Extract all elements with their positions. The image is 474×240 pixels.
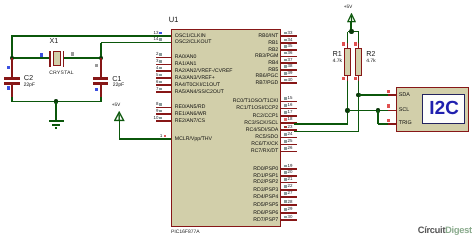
pin 9 number — [156, 109, 158, 113]
pin 9 stub — [156, 113, 172, 115]
wire MCLR riser — [119, 121, 121, 139]
crystal X1 label — [50, 37, 59, 44]
capacitor C1 label — [112, 75, 121, 82]
capacitor C2 — [11, 58, 13, 77]
chip U1 value label PIC16F877A — [171, 230, 200, 235]
pin 24 number — [288, 132, 293, 136]
pin 23 stub — [281, 129, 297, 131]
pin 19 number — [288, 164, 293, 168]
pin 37 stub — [281, 62, 297, 64]
marker R2 bottom terminal — [354, 77, 358, 81]
wire SDA riser — [358, 95, 360, 132]
marker R1 top terminal — [342, 42, 346, 46]
chip U1 body (PIC16F877A) — [171, 29, 281, 227]
wire SCL to module — [348, 110, 391, 112]
pin 29 stub — [281, 212, 297, 214]
wire MCLR — [119, 138, 171, 140]
pin 15 number — [288, 96, 293, 100]
pin 17 stub — [281, 115, 297, 117]
wire TRIG drop — [377, 110, 379, 124]
pin 20 name label RD1/PSP1 — [253, 174, 278, 179]
pin 18 number — [288, 117, 293, 121]
pin 25 number — [288, 139, 293, 143]
pin 30 stub — [281, 219, 297, 221]
pin 4 name label RA2/AN2/VREF-/CVREF — [175, 69, 233, 74]
pin 15 stub — [281, 101, 297, 103]
marker blue C1 bottom — [95, 88, 98, 91]
pin 22 number — [288, 184, 293, 188]
module I2C title — [424, 95, 465, 124]
pin 38 name label RB5 — [268, 68, 278, 73]
power +5V arrow (pull-ups) — [347, 13, 356, 23]
pin 25 name label RC6/TX/CK — [251, 142, 278, 147]
pin 38 number — [288, 64, 293, 68]
wire OSC1 top — [11, 35, 171, 37]
pin 2 stub — [156, 57, 172, 59]
pin 6 name label RA4/T0CKI/C1OUT — [175, 83, 220, 88]
pin 16 number — [288, 103, 293, 107]
pin 24 name label RC5/SDO — [255, 135, 278, 140]
pin 21 stub — [281, 182, 297, 184]
pin 33 number — [288, 31, 293, 35]
wire SDA from pin 23 — [294, 131, 359, 133]
pin 23 name label RC4/SDI/SDA — [246, 128, 279, 133]
resistor R1 label — [333, 50, 342, 57]
pin 8 stub — [156, 107, 172, 109]
pin 35 number — [288, 44, 293, 48]
pin 34 number — [288, 38, 293, 42]
node SCL junction — [345, 108, 350, 113]
crystal value label CRYSTAL — [49, 71, 74, 76]
pin 14 name label OSC2/CLKOUT — [175, 40, 212, 45]
pin 18 stub — [281, 122, 297, 124]
pin 4 number — [156, 66, 158, 70]
pin 28 name label RD5/PSP5 — [253, 203, 278, 208]
node ground junction — [54, 99, 59, 104]
wire +5V stem — [350, 22, 352, 31]
marker SDA terminal — [387, 90, 390, 93]
pin 16 name label RC1/T1OSI/CCP2 — [236, 106, 278, 111]
pin 26 name label RC7/RX/DT — [251, 149, 278, 154]
pin 24 stub — [281, 137, 297, 139]
pin 33 stub — [281, 35, 297, 37]
pin 25 stub — [281, 144, 297, 146]
pin 35 stub — [281, 49, 297, 51]
pin 34 stub — [281, 42, 297, 44]
pin 21 number — [288, 177, 293, 181]
pin 18 name label RC3/SCK/SCL — [244, 121, 278, 126]
pin 40 stub — [281, 82, 297, 84]
pin 5 stub — [156, 77, 172, 79]
pin 14 number — [154, 37, 159, 41]
marker SCL terminal — [387, 104, 390, 107]
pin 37 number — [288, 58, 293, 62]
capacitor C1 — [100, 58, 102, 77]
pin 39 name label RB6/PGC — [256, 74, 279, 79]
pin 35 name label RB2 — [268, 48, 278, 53]
wire C1 to OSC2 riser — [100, 43, 102, 58]
pin 27 name label RD4/PSP4 — [253, 195, 278, 200]
pin 3 stub — [156, 64, 172, 66]
pin 37 name label RB4 — [268, 61, 278, 66]
pin 8 name label RE0/AN5/RD — [175, 105, 206, 110]
wire crystal right — [64, 57, 101, 59]
pin 1 number — [160, 134, 162, 138]
marker gray C1 top — [95, 64, 98, 67]
pin 36 name label RB3/PGM — [255, 54, 278, 59]
resistor R1 value 4.7k — [333, 59, 342, 64]
pin 17 number — [288, 110, 293, 114]
wire SDA to module — [359, 94, 391, 96]
pin 13 number — [154, 31, 159, 35]
pin 26 stub — [281, 151, 297, 153]
resistor R2 — [358, 32, 360, 45]
pin 29 number — [288, 207, 293, 211]
pin 27 stub — [281, 196, 297, 198]
resistor R2 value 4.7k — [366, 59, 375, 64]
pin 19 name label RD0/PSP0 — [253, 167, 278, 172]
node SDA junction — [356, 93, 361, 98]
node crystal-right junction — [99, 56, 104, 61]
pin 8 number — [156, 102, 158, 106]
pin 28 stub — [281, 204, 297, 206]
pin 2 number — [156, 52, 158, 56]
pin 29 name label RD6/PSP6 — [253, 211, 278, 216]
pin 36 stub — [281, 56, 297, 58]
pin 7 name label RA5/AN4/SS/C2OUT — [175, 90, 224, 95]
pin 21 name label RD2/PSP2 — [253, 180, 278, 185]
module I2C inner screen — [422, 94, 465, 123]
pin 39 stub — [281, 76, 297, 78]
pin 19 stub — [281, 168, 297, 170]
pin 26 number — [288, 146, 293, 150]
pin 23 number — [288, 125, 293, 129]
crystal X1 — [49, 51, 50, 68]
pin 20 stub — [281, 175, 297, 177]
pin 7 number — [156, 87, 158, 91]
pin 15 name label RC0/T1OSO/T1CKI — [233, 99, 279, 104]
pin 13 stub — [156, 35, 172, 37]
CircuitDigest logo — [418, 225, 472, 235]
pin 10 number — [154, 116, 159, 120]
pin 13 name label OSC1/CLKIN — [175, 34, 206, 39]
pin 20 number — [288, 170, 293, 174]
pin 1 name label MCLR/Vpp/THV — [175, 137, 212, 142]
power +5V label (pull-ups) — [344, 5, 352, 10]
capacitor C1 value 22pF — [113, 83, 124, 88]
pin 28 number — [288, 200, 293, 204]
wire SCL from pin 18 — [294, 123, 348, 125]
pin 5 name label RA3/AN3/VREF+ — [175, 76, 215, 81]
pin 6 number — [156, 80, 158, 84]
node crystal-left junction — [10, 56, 15, 61]
pin 38 stub — [281, 69, 297, 71]
pin 16 stub — [281, 108, 297, 110]
module pin SCL — [388, 110, 396, 112]
node TRIG junction — [376, 108, 381, 113]
pin 5 number — [156, 73, 158, 77]
pin 27 number — [288, 191, 293, 195]
wire TRIG to module — [378, 123, 391, 125]
power +5V arrow (MCLR) — [114, 111, 125, 122]
ground symbol — [55, 102, 57, 121]
pin 2 name label RA0/AN0 — [175, 55, 197, 60]
marker blue C2 bottom — [7, 86, 10, 89]
pin 40 name label RB7/PGD — [256, 81, 279, 86]
wire bottom rail — [11, 101, 101, 103]
resistor R1 — [347, 32, 349, 45]
pin 22 name label RD3/PSP3 — [253, 188, 278, 193]
wire crystal left — [12, 57, 50, 59]
pin 33 name label RB0/INT — [258, 34, 278, 39]
marker R2 top terminal — [354, 42, 358, 46]
resistor R2 label — [366, 50, 375, 57]
pin 4 stub — [156, 70, 172, 72]
chip U1 reference designator — [169, 16, 179, 24]
marker gray crystal-right — [71, 52, 74, 55]
marker blue crystal-left — [40, 53, 43, 56]
module pin SDA — [388, 94, 396, 96]
pin 10 stub — [156, 120, 172, 122]
wire SCL riser — [347, 110, 349, 123]
wire left drop — [11, 36, 13, 58]
wire OSC2 — [101, 42, 171, 44]
pin 9 name label RE1/AN6/WR — [175, 112, 207, 117]
pin 34 name label RB1 — [268, 41, 278, 46]
capacitor C2 value 22pF — [24, 83, 35, 88]
module I2C body — [396, 87, 470, 132]
capacitor C2 label — [24, 74, 33, 81]
pin 36 number — [288, 51, 293, 55]
power +5V label (MCLR) — [112, 103, 120, 108]
pin 30 number — [288, 215, 293, 219]
pin 3 number — [156, 59, 158, 63]
pin 10 name label RE2/AN7/CS — [175, 119, 205, 124]
pin 3 name label RA1/AN1 — [175, 62, 197, 67]
pin 17 name label RC2/CCP1 — [253, 114, 279, 119]
pin 1 stub — [156, 138, 172, 140]
node +5V junction — [349, 29, 354, 34]
marker blue C2 top — [7, 66, 10, 69]
pin 22 stub — [281, 189, 297, 191]
pin 7 stub — [156, 91, 172, 93]
pin 14 stub — [156, 42, 172, 44]
wire +5V rail — [348, 31, 359, 33]
pin 6 stub — [156, 84, 172, 86]
pin 30 name label RD7/PSP7 — [253, 218, 278, 223]
pin 39 number — [288, 71, 293, 75]
module pin TRIG — [388, 123, 396, 125]
pin 40 number — [288, 78, 293, 82]
marker TRIG terminal — [387, 119, 390, 122]
marker R1 bottom terminal — [342, 77, 346, 81]
